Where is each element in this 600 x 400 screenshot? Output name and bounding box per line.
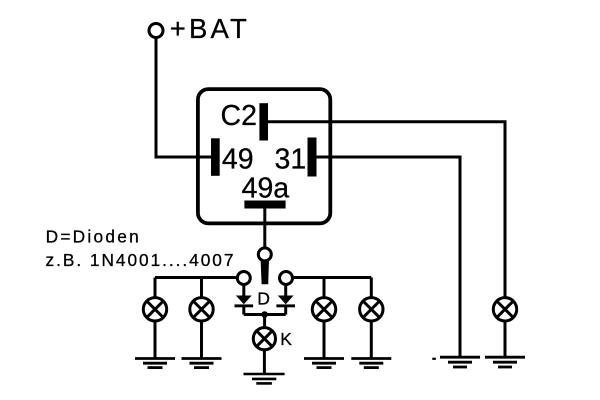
wire lamp 5 to ground <box>504 321 507 358</box>
svg-text:z.B.1N4001....4007: z.B.1N4001....4007 <box>46 250 236 270</box>
switch S1 left contact <box>237 272 250 285</box>
pin C2 terminal bar <box>259 103 268 140</box>
svg-text:49a: 49a <box>242 173 290 205</box>
svg-text:49: 49 <box>222 143 254 175</box>
wire pin 31 ground drop ground <box>440 357 480 367</box>
wire diode join <box>244 313 286 316</box>
wire drop lamp 2 <box>200 278 203 299</box>
wire diode D1 cathode <box>242 307 245 315</box>
ground lamp K <box>244 374 285 383</box>
switch S1 lever <box>261 260 269 285</box>
wire drop lamp 3 <box>323 278 326 299</box>
wire to lamp K <box>263 315 266 329</box>
lamp 5 <box>493 298 516 321</box>
wire 49a to switch <box>263 209 266 249</box>
ground lamp 3 <box>304 359 344 368</box>
wire 31 to ground <box>317 157 461 358</box>
wire diode D1 anode <box>242 285 245 297</box>
wire lamp 4 to ground <box>370 321 373 359</box>
svg-text:+BAT: +BAT <box>170 13 250 44</box>
wire lamp K to ground <box>263 350 266 375</box>
wire lamp 3 to ground <box>323 321 326 359</box>
ground lamp 5 <box>485 357 525 367</box>
lamp 2 <box>190 298 213 321</box>
lamp 1 <box>143 298 166 321</box>
svg-text:K: K <box>280 329 292 349</box>
wire diode D2 cathode <box>284 307 287 315</box>
wire drop lamp 1 <box>154 278 157 299</box>
pin 31 terminal bar <box>308 138 317 177</box>
wire lamp 2 to ground <box>200 321 203 359</box>
svg-text:C2: C2 <box>221 100 257 132</box>
wire diode D2 anode <box>284 285 287 297</box>
lamp 3 <box>312 298 335 321</box>
battery terminal +BAT <box>149 24 163 38</box>
pin 49 terminal bar <box>211 138 220 176</box>
svg-text:31: 31 <box>275 143 307 175</box>
lamp K <box>253 328 275 350</box>
ground lamp 2 <box>182 359 222 368</box>
stray mark <box>432 358 436 360</box>
wire +BAT to pin 49 <box>156 38 212 157</box>
wire left bus <box>155 276 236 279</box>
lamp 4 <box>360 298 383 321</box>
wire lamp 1 to ground <box>154 321 157 359</box>
relay U1 <box>198 89 330 223</box>
ground lamp 1 <box>135 359 175 368</box>
switch S1 common contact <box>258 248 271 261</box>
diode D1 <box>235 296 254 308</box>
wire C2 to right lamp <box>267 122 505 298</box>
pin 49a terminal bar <box>244 201 285 209</box>
wire drop lamp 4 <box>370 278 373 299</box>
svg-text:D=Dioden: D=Dioden <box>46 227 141 247</box>
wire right bus <box>294 276 372 279</box>
wire drop right lamp <box>504 296 507 299</box>
junction node <box>261 311 268 318</box>
svg-text:D: D <box>257 289 270 309</box>
switch S1 right contact <box>280 272 293 285</box>
ground lamp 4 <box>351 359 391 368</box>
diode D2 <box>276 296 295 308</box>
